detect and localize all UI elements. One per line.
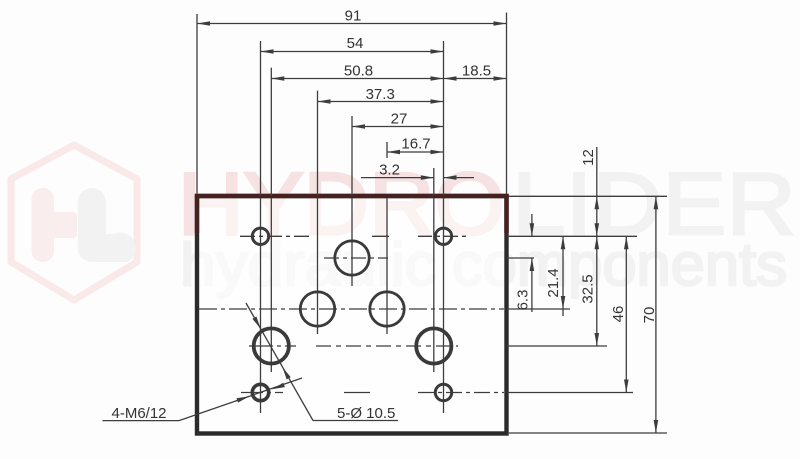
arrowheads dim 32.5 bbox=[595, 236, 600, 249]
dim line 12 + 32.5 bbox=[596, 147, 598, 346]
right extension: row D bbox=[507, 345, 608, 347]
arrowheads dim 50.8 bbox=[271, 76, 284, 81]
logo H left bar bbox=[32, 188, 55, 262]
svg-text:5-Ø 10.5: 5-Ø 10.5 bbox=[337, 405, 395, 422]
extension+centerline column right mounting holes bbox=[443, 41, 445, 196]
svg-text:16.7: 16.7 bbox=[401, 136, 430, 153]
svg-text:21.4: 21.4 bbox=[545, 268, 562, 297]
row A centerline bbox=[240, 235, 309, 237]
svg-text:4-M6/12: 4-M6/12 bbox=[112, 405, 167, 422]
port hole P bottom-left bbox=[254, 328, 289, 363]
arrowheads dim 3.2 bbox=[421, 175, 434, 180]
svg-text:46: 46 bbox=[610, 306, 627, 323]
port hole T top-center bbox=[335, 241, 369, 275]
svg-text:50.8: 50.8 bbox=[344, 63, 373, 80]
dim line 16.7 bbox=[387, 151, 444, 153]
mounting hole top-left bbox=[252, 228, 268, 244]
plate border bbox=[197, 196, 507, 434]
port hole mid-left bbox=[300, 292, 334, 326]
mounting hole top-right bbox=[435, 228, 451, 244]
arrowheads dim 18.5 bbox=[444, 76, 457, 81]
dim line 54 bbox=[261, 51, 444, 53]
svg-text:27: 27 bbox=[391, 111, 408, 128]
plate body (washes out watermark beneath) bbox=[199, 198, 504, 431]
port hole bottom-right bbox=[416, 328, 451, 363]
centerline column 16.7 bbox=[386, 198, 388, 334]
arrowheads dim 46 bbox=[624, 236, 629, 249]
arrowheads dim 37.3 bbox=[318, 99, 331, 104]
svg-text:54: 54 bbox=[347, 35, 364, 52]
dim line 91 bbox=[197, 23, 507, 25]
dim line 21.4 bbox=[562, 236, 564, 316]
right extension: row B bbox=[507, 257, 535, 259]
right extension: plate bottom edge bbox=[509, 432, 667, 434]
svg-text:70: 70 bbox=[641, 307, 658, 324]
logo L bbox=[78, 188, 136, 262]
extension+centerline column 27 left (port T top) bbox=[351, 116, 353, 196]
arrowheads dim 16.7 bbox=[387, 150, 400, 155]
svg-text:37.3: 37.3 bbox=[366, 86, 395, 103]
watermark logo hexagon bbox=[11, 145, 137, 300]
svg-text:91: 91 bbox=[345, 8, 362, 25]
svg-text:32.5: 32.5 bbox=[580, 274, 597, 303]
row B centerline (T hole) bbox=[324, 257, 388, 259]
leader 4-M6/12 bbox=[103, 420, 180, 422]
right extension: row E bbox=[507, 392, 634, 394]
extension+centerline column 50.8 left (port A) bbox=[270, 68, 272, 196]
port hole mid-right bbox=[370, 292, 404, 326]
svg-text:12: 12 bbox=[580, 149, 597, 166]
leader 5-O10.5 bbox=[246, 303, 313, 421]
dim line 50.8 bbox=[271, 78, 443, 80]
row D centerline bbox=[249, 345, 296, 347]
right extension: row A bbox=[507, 235, 638, 237]
arrowheads dim 6.3 bbox=[530, 223, 535, 236]
row E centerline bbox=[241, 392, 283, 394]
plate border maroon tint where red letters cross bbox=[195, 194, 509, 198]
dim line 6.3 (outside arrows) bbox=[531, 214, 533, 236]
extension+centerline column 37.3 left bbox=[317, 91, 319, 196]
right extension: plate top edge bbox=[509, 195, 667, 197]
logo H crossbar bbox=[52, 212, 77, 238]
arrowheads dim 54 bbox=[261, 49, 274, 54]
arrowheads dim 12 bbox=[595, 196, 600, 209]
arrowheads dim 91 bbox=[197, 21, 210, 26]
dimension texts bbox=[344, 8, 658, 324]
dim line 37.3 bbox=[318, 101, 444, 103]
dim line 46 bbox=[625, 236, 627, 392]
arrowheads dim 70 bbox=[654, 196, 659, 209]
svg-text:18.5: 18.5 bbox=[462, 63, 491, 80]
arrowheads leader 4-M6/12 bbox=[236, 394, 250, 403]
mounting hole bottom-right bbox=[435, 384, 451, 400]
row C centerline bbox=[199, 308, 504, 310]
dim line 27 bbox=[352, 126, 444, 128]
svg-text:6.3: 6.3 bbox=[515, 290, 532, 311]
dim line 18.5 bbox=[444, 78, 507, 80]
arrowheads dim 21.4 bbox=[561, 236, 566, 249]
extension line right plate edge bbox=[506, 13, 508, 194]
extension line 16.7 left bbox=[386, 142, 388, 158]
extension+centerline column 54 left bbox=[260, 41, 262, 196]
svg-text:3.2: 3.2 bbox=[379, 161, 400, 178]
right extension: row C bbox=[507, 308, 571, 310]
extension+centerline column 3.2 left (port B) bbox=[433, 168, 435, 196]
dim line 3.2 with outside tails bbox=[361, 177, 434, 179]
arrowheads dim 27 bbox=[352, 124, 365, 129]
mounting hole bottom-left bbox=[252, 384, 268, 400]
extension line left plate edge bbox=[196, 14, 198, 194]
dim line 70 bbox=[655, 196, 657, 433]
arrowheads leader 5-Ø10.5 bbox=[252, 317, 262, 331]
